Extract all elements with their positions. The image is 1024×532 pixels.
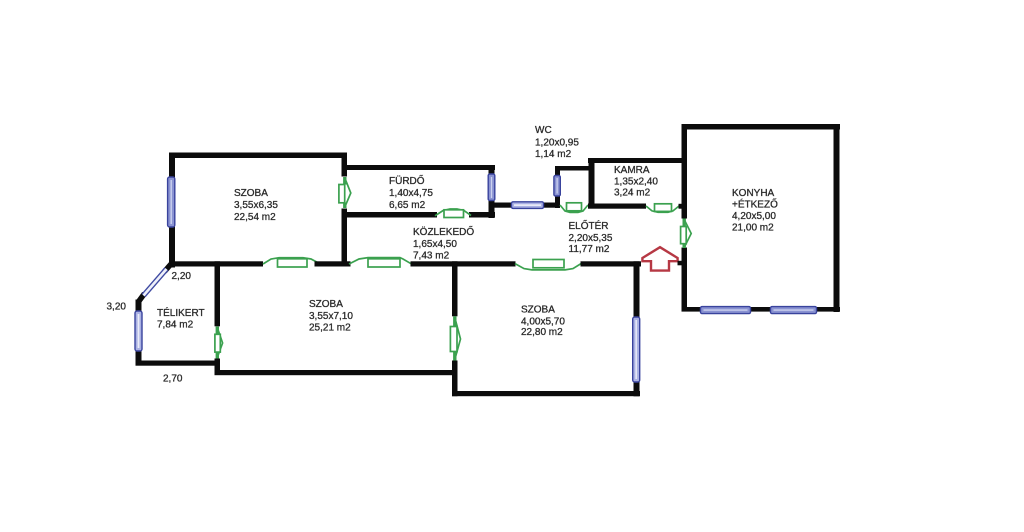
wall KONYHA left upper (682, 124, 688, 219)
wall WC top (555, 166, 589, 171)
wall SZOBA1 right upper (342, 153, 348, 177)
wall between SZOBAs upper (452, 261, 458, 316)
wall TELIKERT left (136, 300, 142, 366)
svg-text:SZOBA: SZOBA (521, 305, 555, 316)
svg-text:TÉLIKERT: TÉLIKERT (157, 306, 205, 319)
wall stub KAMRA door to KONYHA (679, 204, 684, 209)
wall FURDO top (342, 165, 496, 170)
door D7 SZOBA1-FURDO (339, 177, 351, 208)
wall WC left (555, 166, 560, 208)
svg-text:3,55x6,35: 3,55x6,35 (234, 200, 278, 211)
wall midSZOBA bottom (215, 370, 458, 375)
window W6 KONYHA bottom B (771, 307, 817, 314)
entrance arrow (642, 247, 677, 270)
svg-text:22,54 m2: 22,54 m2 (234, 212, 276, 223)
svg-text:3,20: 3,20 (107, 302, 127, 313)
window W5 KONYHA bottom A (701, 307, 751, 314)
wall corridor bottom seg2 (315, 261, 351, 266)
wall SZOBA1 right lower (342, 209, 348, 267)
window W7 right SZOBA (633, 317, 640, 382)
wall right SZOBA right (634, 261, 640, 396)
wall midSZOBA left lower (215, 359, 221, 376)
svg-text:11,77 m2: 11,77 m2 (569, 244, 610, 255)
door D10 ELOTER-KONYHA (681, 219, 692, 249)
window W9 TELIKERT left wall (135, 311, 142, 351)
svg-text:2,20x5,35: 2,20x5,35 (569, 233, 613, 244)
svg-text:21,00 m2: 21,00 m2 (732, 223, 774, 234)
wall midSZOBA left upper (215, 261, 221, 326)
wall SZOBA1 left (169, 153, 175, 268)
wall KONYHA left lower (682, 248, 688, 312)
svg-text:22,80 m2: 22,80 m2 (521, 327, 563, 338)
label WC (535, 125, 579, 160)
svg-text:25,21 m2: 25,21 m2 (309, 323, 351, 334)
wall corridor bottom seg3 (411, 261, 516, 266)
label KONYHA (732, 188, 778, 234)
svg-text:2,20: 2,20 (172, 271, 192, 282)
wall TELIKERT diagonal (139, 264, 171, 301)
window W2 FURDO right wall (488, 174, 495, 201)
wall between SZOBAs lower (452, 361, 458, 397)
wall KONYHA top (682, 124, 841, 130)
door D8 TELIKERT-SZOBA (215, 327, 223, 359)
label KOZLEKEDO (413, 224, 474, 262)
svg-text:7,84 m2: 7,84 m2 (157, 320, 194, 331)
wall SZOBA1 top (169, 153, 347, 159)
svg-text:KÖZLEKEDŐ: KÖZLEKEDŐ (413, 224, 474, 238)
svg-text:6,65 m2: 6,65 m2 (389, 200, 426, 211)
wall TELIKERT bottom (136, 361, 221, 366)
door D2 corridor sliding (349, 258, 411, 267)
window W3 lightwell (512, 202, 544, 209)
wall KONYHA bottom (682, 307, 841, 312)
door D1 SZOBA1 sliding (263, 258, 320, 267)
label SZOBA1 (234, 188, 278, 223)
label SZOBA mid (309, 299, 353, 334)
svg-text:1,35x2,40: 1,35x2,40 (614, 177, 658, 188)
svg-text:4,00x5,70: 4,00x5,70 (521, 317, 565, 328)
svg-text:1,65x4,50: 1,65x4,50 (413, 239, 457, 250)
wall right SZOBA bottom (452, 391, 640, 396)
svg-text:WC: WC (535, 125, 552, 136)
svg-text:4,20x5,00: 4,20x5,00 (732, 211, 776, 222)
door D5 WC (560, 203, 588, 213)
label SZOBA right (521, 305, 565, 339)
wall FURDO bottom left (342, 212, 438, 218)
svg-text:3,55x7,10: 3,55x7,10 (309, 311, 353, 322)
door D3 FURDO (435, 209, 471, 218)
svg-text:+ÉTKEZŐ: +ÉTKEZŐ (732, 197, 778, 211)
door D6 KAMRA (646, 204, 679, 213)
svg-text:1,40x4,75: 1,40x4,75 (389, 188, 433, 199)
svg-text:3,24 m2: 3,24 m2 (614, 188, 651, 199)
label TELIKERT (157, 306, 205, 331)
wall entry stub (678, 261, 683, 266)
label FURDO (389, 173, 433, 211)
wall KAMRA top (588, 158, 682, 163)
label KAMRA (614, 165, 658, 199)
svg-text:1,20x0,95: 1,20x0,95 (535, 137, 579, 148)
wall corridor bottom seg1 (169, 261, 263, 266)
label ELOTER (569, 218, 613, 255)
wall lightwell south (ELOTER top left) (494, 203, 559, 208)
wall FURDO right (489, 165, 495, 218)
svg-text:7,43 m2: 7,43 m2 (413, 251, 450, 262)
svg-text:2,70: 2,70 (163, 374, 183, 385)
door D9 SZOBA-SZOBA (450, 316, 460, 360)
svg-text:SZOBA: SZOBA (309, 299, 343, 310)
wall KAMRA left (589, 158, 595, 209)
window W1 SZOBA1 left wall (168, 177, 175, 227)
svg-text:ELŐTÉR: ELŐTÉR (569, 218, 609, 232)
svg-text:KONYHA: KONYHA (732, 188, 775, 199)
svg-text:KAMRA: KAMRA (614, 165, 650, 176)
window W8 TELIKERT diagonal (144, 269, 167, 296)
svg-text:SZOBA: SZOBA (234, 188, 268, 199)
wall corridor bottom seg4 (581, 261, 642, 266)
wall KONYHA right (834, 124, 840, 312)
svg-text:1,14 m2: 1,14 m2 (535, 149, 572, 160)
door D4 ELOTER-SZOBA sliding (515, 260, 581, 270)
window W4 WC left wall (554, 176, 560, 197)
svg-text:FÜRDŐ: FÜRDŐ (389, 173, 425, 187)
wall KAMRA bottom (ELOTER top) (588, 204, 646, 209)
wall FURDO bottom right (469, 212, 495, 218)
